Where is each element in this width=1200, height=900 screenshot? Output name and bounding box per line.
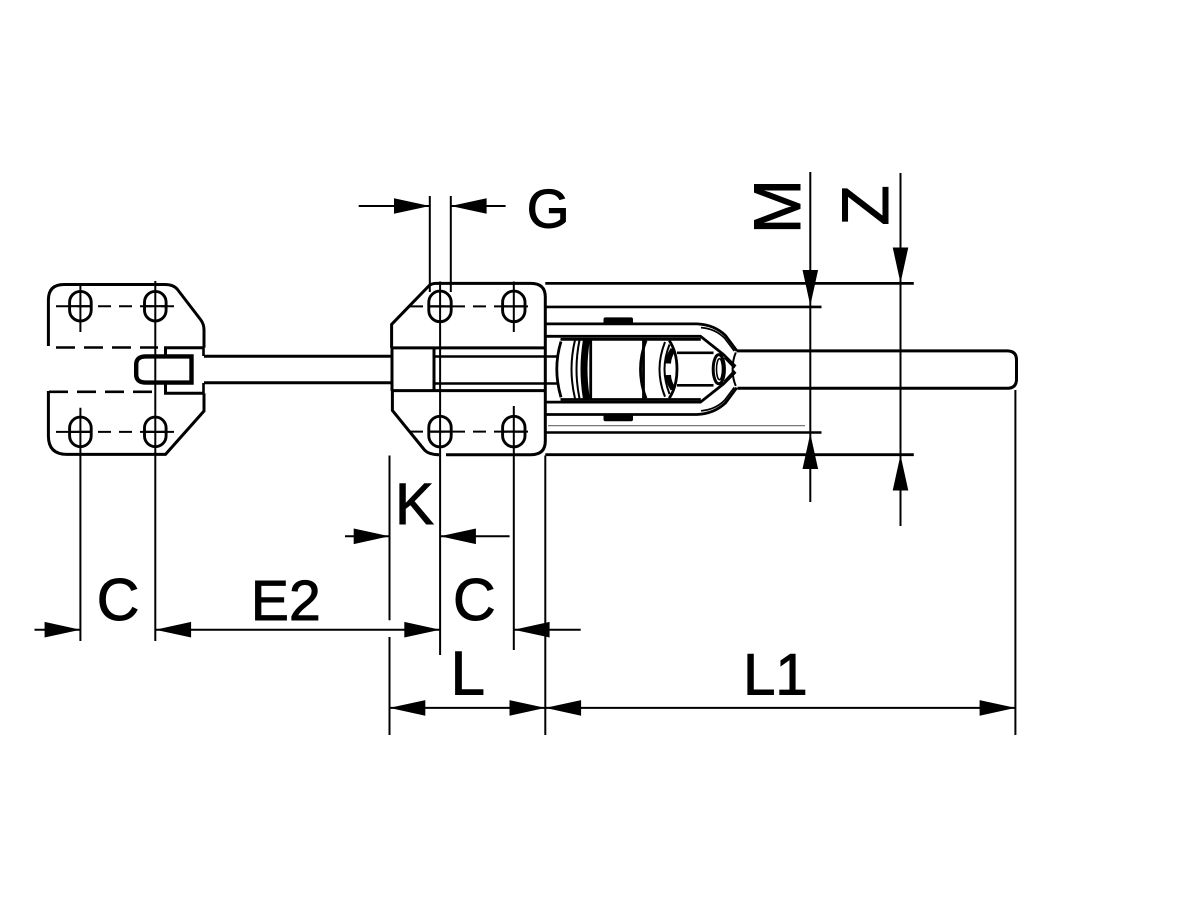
svg-text:G: G [527,178,570,240]
svg-text:E2: E2 [251,569,321,633]
svg-text:Z: Z [828,185,902,225]
svg-text:L: L [451,639,485,708]
svg-text:C: C [453,567,496,633]
svg-text:K: K [395,472,434,537]
svg-text:L1: L1 [743,642,808,707]
svg-text:C: C [97,567,140,633]
svg-text:M: M [740,179,814,234]
